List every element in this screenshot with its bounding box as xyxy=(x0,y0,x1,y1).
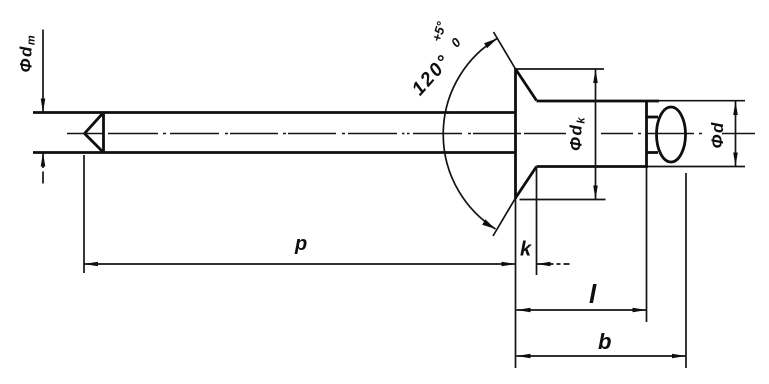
dim l right extension line xyxy=(646,168,648,323)
dim k arrow tail xyxy=(537,263,570,265)
arrow d_k bottom (down) xyxy=(593,186,598,200)
mandrel stub top behind ball xyxy=(647,116,659,119)
mandrel top line xyxy=(33,111,516,114)
dim k right extension line xyxy=(536,168,538,275)
dim p left extension line xyxy=(83,155,85,273)
dim d_m lower dimension line xyxy=(42,153,44,168)
arrow d_m bottom (up) xyxy=(41,153,46,167)
dim d bottom extension line xyxy=(648,166,745,168)
arrow d_m top (down) xyxy=(41,99,46,113)
svg-text:+5°: +5° xyxy=(429,19,449,43)
dim d top extension line xyxy=(648,100,745,102)
countersink cone lower surface xyxy=(516,167,537,199)
svg-text:b: b xyxy=(598,329,611,354)
countersink angle lower extension line xyxy=(493,198,516,236)
dim d_k bottom extension line xyxy=(520,199,606,201)
dim d dimension line xyxy=(735,101,737,167)
flush face extension line down to b xyxy=(515,199,517,368)
svg-text:Φdk: Φdk xyxy=(567,116,588,151)
arrow p left (left) xyxy=(84,262,98,267)
svg-text:0: 0 xyxy=(448,34,465,50)
rivet body end face xyxy=(645,100,648,168)
arrow angle arc top xyxy=(484,38,497,48)
label 120 degree with tolerance xyxy=(390,14,473,99)
mandrel head ball xyxy=(657,107,686,162)
angle dimension arc xyxy=(443,38,497,229)
center line (axis), dash-dot xyxy=(67,133,755,135)
svg-text:l: l xyxy=(589,279,597,309)
dim d_k top extension line xyxy=(517,68,604,70)
svg-text:p: p xyxy=(294,233,307,255)
dim b dimension line xyxy=(517,355,687,357)
mandrel tip cone lower edge xyxy=(85,134,104,153)
arrow d_k top (up) xyxy=(593,69,598,83)
rivet head flush face xyxy=(514,68,517,199)
svg-text:k: k xyxy=(520,239,532,261)
thick outline group xyxy=(33,68,686,199)
dim l dimension line xyxy=(517,309,647,311)
arrow d bottom (down) xyxy=(733,153,738,167)
arrowheads xyxy=(41,38,738,358)
arrow k (left, tip at right ext) xyxy=(537,262,551,267)
svg-text:120°: 120° xyxy=(408,51,455,100)
arrow l right xyxy=(633,308,647,313)
svg-text:Φdm: Φdm xyxy=(17,34,38,73)
rivet body bottom line xyxy=(537,165,649,168)
arrow d top (up) xyxy=(733,101,738,115)
arrow b left xyxy=(517,354,531,359)
mandrel tip cone base xyxy=(102,112,105,154)
arrow b right xyxy=(672,354,686,359)
mandrel bottom line xyxy=(33,151,516,154)
dim p dimension line xyxy=(84,263,516,265)
svg-text:Φd: Φd xyxy=(708,121,727,148)
mandrel stub bottom behind ball xyxy=(647,151,659,154)
rivet body top line xyxy=(537,100,660,103)
arrow l left xyxy=(517,308,531,313)
arrow p right (right) xyxy=(502,262,516,267)
dim d_k dimension line xyxy=(595,69,597,200)
arrow angle arc bottom xyxy=(482,219,495,229)
dim b right extension line xyxy=(685,173,687,368)
dim d_m upper dimension line xyxy=(42,30,44,113)
countersink cone upper surface xyxy=(516,69,537,101)
countersink angle upper extension line xyxy=(494,32,516,69)
mandrel tip cone upper edge xyxy=(85,113,104,134)
